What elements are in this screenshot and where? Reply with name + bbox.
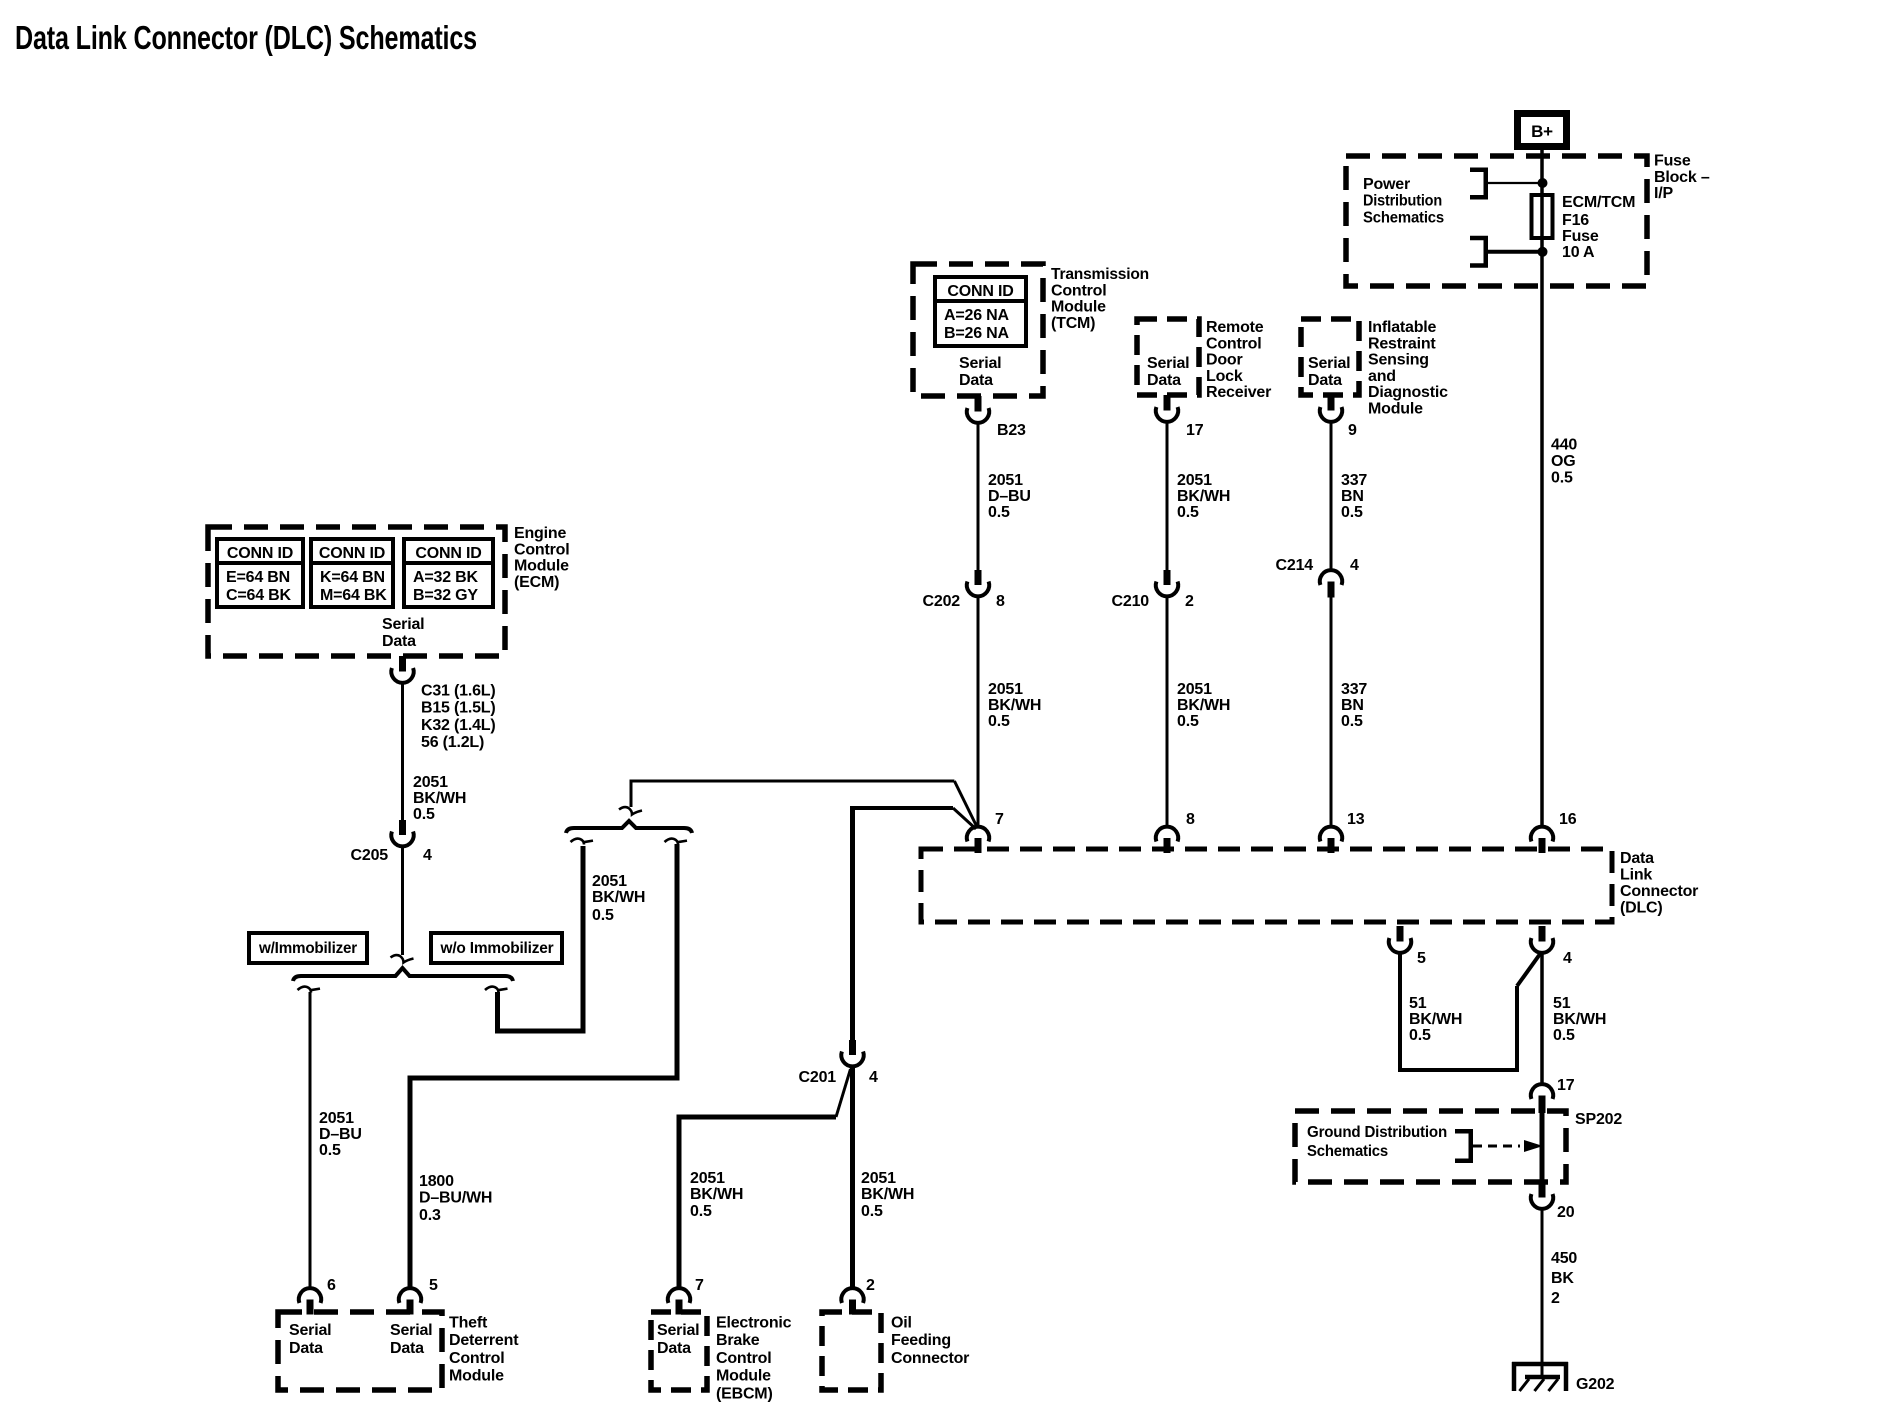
svg-text:2051: 2051 xyxy=(1177,681,1212,698)
svg-text:13: 13 xyxy=(1347,811,1365,828)
svg-text:B15 (1.5L): B15 (1.5L) xyxy=(421,700,495,717)
svg-text:Restraint: Restraint xyxy=(1368,335,1436,352)
svg-text:4: 4 xyxy=(423,847,432,864)
wire C214 to DLC pin 13 xyxy=(1330,598,1333,828)
wire horizontal to DLC pin 7 xyxy=(630,780,955,783)
svg-text:BK/WH: BK/WH xyxy=(988,697,1041,714)
svg-text:2051: 2051 xyxy=(1177,472,1212,489)
wire end curl at split xyxy=(391,955,414,962)
svg-text:C205: C205 xyxy=(351,847,389,864)
svg-text:OG: OG xyxy=(1551,453,1576,470)
svg-text:2051: 2051 xyxy=(861,1170,896,1187)
svg-text:w/o Immobilizer: w/o Immobilizer xyxy=(440,940,554,957)
wire w/immobilizer branch to theft pin 6 xyxy=(309,992,312,1287)
IRSDM dashed box xyxy=(1301,319,1359,395)
svg-text:2: 2 xyxy=(866,1277,875,1294)
svg-text:K=64 BN: K=64 BN xyxy=(320,569,385,586)
dashed link to wire xyxy=(1473,1145,1520,1148)
svg-text:2051: 2051 xyxy=(319,1110,354,1127)
svg-text:SP202: SP202 xyxy=(1575,1111,1622,1128)
EBCM dashed box xyxy=(651,1312,707,1390)
wire DLC pin 5 ground loop xyxy=(1400,953,1517,1070)
svg-text:8: 8 xyxy=(996,593,1005,610)
svg-text:BK/WH: BK/WH xyxy=(1409,1011,1462,1028)
svg-text:2051: 2051 xyxy=(592,873,627,890)
svg-text:17: 17 xyxy=(1186,422,1204,439)
ECM CONN ID table 1 xyxy=(217,539,303,607)
connector pin 9 (IRSDM) xyxy=(1328,395,1335,411)
TCM CONN ID table xyxy=(935,277,1026,346)
svg-text:Module: Module xyxy=(1051,299,1106,316)
svg-text:Ground Distribution: Ground Distribution xyxy=(1307,1124,1447,1141)
connector DLC pin 7 xyxy=(967,827,989,842)
svg-text:4: 4 xyxy=(1563,950,1572,967)
svg-text:Data: Data xyxy=(289,1340,323,1357)
junction node upper xyxy=(1538,178,1548,188)
connector C201 pin 4 xyxy=(849,1040,856,1055)
svg-text:(ECM): (ECM) xyxy=(514,574,559,591)
wire SP202 to ground G202 xyxy=(1541,1209,1544,1377)
connector DLC pin 4 xyxy=(1539,926,1546,942)
svg-text:0.5: 0.5 xyxy=(1409,1027,1431,1044)
svg-text:Distribution: Distribution xyxy=(1363,193,1442,210)
svg-text:0.5: 0.5 xyxy=(690,1203,712,1220)
svg-text:B=32 GY: B=32 GY xyxy=(413,587,478,604)
svg-text:Serial: Serial xyxy=(1147,355,1189,372)
svg-text:Deterrent: Deterrent xyxy=(449,1332,519,1349)
svg-text:5: 5 xyxy=(1417,950,1426,967)
svg-text:5: 5 xyxy=(429,1277,438,1294)
svg-text:Module: Module xyxy=(514,558,569,575)
wire C201 to oil feeding pin 2 xyxy=(850,1067,855,1287)
wire DLC pin 4 to splice 17 xyxy=(1540,953,1544,1084)
svg-text:0.5: 0.5 xyxy=(988,713,1010,730)
svg-text:I/P: I/P xyxy=(1654,185,1673,202)
svg-text:4: 4 xyxy=(869,1069,878,1086)
wire IRSDM to C214 xyxy=(1330,422,1333,570)
cross-ref bracket upper (power distribution) xyxy=(1470,170,1486,198)
svg-text:Oil: Oil xyxy=(891,1315,912,1332)
callout box w/o Immobilizer xyxy=(431,933,562,963)
connector splice 17 into SP202 xyxy=(1531,1084,1553,1099)
svg-text:BN: BN xyxy=(1341,697,1364,714)
svg-text:BK/WH: BK/WH xyxy=(861,1186,914,1203)
connector C205 pin 4 xyxy=(399,820,406,835)
svg-text:C202: C202 xyxy=(923,593,961,610)
svg-text:0.3: 0.3 xyxy=(419,1207,441,1224)
svg-text:B=26 NA: B=26 NA xyxy=(944,325,1009,342)
ECM CONN ID table 2 xyxy=(311,539,393,607)
svg-text:1800: 1800 xyxy=(419,1173,454,1190)
svg-text:Serial: Serial xyxy=(382,616,424,633)
svg-text:Receiver: Receiver xyxy=(1206,384,1271,401)
brace serial data merge xyxy=(566,821,692,833)
wire across to theft pin 5 drop xyxy=(410,1076,680,1081)
svg-text:BK/WH: BK/WH xyxy=(1177,488,1230,505)
svg-text:6: 6 xyxy=(327,1277,336,1294)
connector theft pin 5 xyxy=(399,1288,421,1303)
svg-text:C31 (1.6L): C31 (1.6L) xyxy=(421,683,495,700)
fuse block I/P dashed box xyxy=(1346,156,1647,286)
fuse ECM/TCM F16 10A xyxy=(1532,195,1553,238)
svg-text:450: 450 xyxy=(1551,1250,1577,1267)
connector DLC pin 13 xyxy=(1320,827,1342,842)
svg-text:Control: Control xyxy=(716,1350,771,1367)
svg-text:A=32 BK: A=32 BK xyxy=(413,569,478,586)
SP202 dashed box xyxy=(1295,1111,1566,1182)
svg-text:17: 17 xyxy=(1557,1077,1575,1094)
curl at merge stub end xyxy=(619,807,642,814)
svg-text:2051: 2051 xyxy=(988,681,1023,698)
svg-text:Lock: Lock xyxy=(1206,368,1243,385)
svg-text:C=64 BK: C=64 BK xyxy=(226,587,291,604)
wire bracket lower to node xyxy=(1488,250,1540,254)
svg-text:BN: BN xyxy=(1341,488,1364,505)
svg-text:BK/WH: BK/WH xyxy=(413,790,466,807)
battery B+ symbol xyxy=(1518,114,1567,147)
svg-text:Fuse: Fuse xyxy=(1654,153,1691,170)
wire diagonal C201 to EBCM branch xyxy=(836,1069,851,1117)
svg-text:K32 (1.4L): K32 (1.4L) xyxy=(421,717,495,734)
svg-text:Serial: Serial xyxy=(289,1322,331,1339)
wire diagonal into DLC pin 7 (lower) xyxy=(953,808,976,829)
svg-text:Serial: Serial xyxy=(1308,355,1350,372)
svg-text:Data: Data xyxy=(382,633,416,650)
wire horizontal to EBCM drop xyxy=(679,1115,836,1120)
svg-text:0.5: 0.5 xyxy=(1177,713,1199,730)
svg-text:Data Link Connector (DLC) Sche: Data Link Connector (DLC) Schematics xyxy=(15,19,477,56)
hook right merge branch xyxy=(665,839,688,845)
svg-text:2051: 2051 xyxy=(413,774,448,791)
svg-text:BK/WH: BK/WH xyxy=(592,889,645,906)
svg-text:Data: Data xyxy=(1620,850,1654,867)
svg-text:337: 337 xyxy=(1341,472,1367,489)
svg-text:Data: Data xyxy=(1147,372,1181,389)
svg-text:Serial: Serial xyxy=(657,1322,699,1339)
svg-text:Inflatable: Inflatable xyxy=(1368,319,1437,336)
svg-text:337: 337 xyxy=(1341,681,1367,698)
svg-text:CONN ID: CONN ID xyxy=(415,545,481,562)
svg-text:CONN ID: CONN ID xyxy=(319,545,385,562)
svg-text:F16: F16 xyxy=(1562,212,1589,229)
connector pin 20 (SP202 exit) xyxy=(1539,1182,1546,1198)
RCDLR dashed box xyxy=(1137,319,1199,395)
svg-text:16: 16 xyxy=(1559,811,1577,828)
svg-text:CONN ID: CONN ID xyxy=(947,283,1013,300)
svg-text:20: 20 xyxy=(1557,1204,1575,1221)
svg-text:0.5: 0.5 xyxy=(592,907,614,924)
ground G202 symbol xyxy=(1512,1362,1568,1367)
svg-text:C210: C210 xyxy=(1112,593,1150,610)
connector C214 pin 4 xyxy=(1320,570,1342,585)
wire C201 feed down xyxy=(850,806,855,1040)
svg-text:(EBCM): (EBCM) xyxy=(716,1385,773,1402)
svg-text:CONN ID: CONN ID xyxy=(227,545,293,562)
svg-text:Connector: Connector xyxy=(1620,883,1698,900)
svg-text:0.5: 0.5 xyxy=(988,504,1010,521)
svg-text:Connector: Connector xyxy=(891,1350,969,1367)
cross-ref bracket (ground distribution) xyxy=(1455,1131,1471,1161)
svg-text:C214: C214 xyxy=(1276,557,1314,574)
wire diagonal pin 4 to loop xyxy=(1517,954,1540,986)
DLC dashed box xyxy=(921,849,1612,922)
svg-text:and: and xyxy=(1368,368,1396,385)
svg-text:Link: Link xyxy=(1620,867,1652,884)
ECM CONN ID table 3 xyxy=(404,539,493,607)
svg-text:Data: Data xyxy=(390,1340,424,1357)
svg-text:Feeding: Feeding xyxy=(891,1332,951,1349)
svg-text:Remote: Remote xyxy=(1206,319,1264,336)
theft deterrent dashed box xyxy=(278,1312,442,1390)
svg-text:0.5: 0.5 xyxy=(1551,469,1573,486)
wire RCDLR to C210 xyxy=(1166,422,1169,570)
connector ECM serial data pin xyxy=(399,656,406,672)
wire horizontal lower to DLC pin 7 xyxy=(853,806,954,810)
svg-text:M=64 BK: M=64 BK xyxy=(320,587,387,604)
svg-text:w/Immobilizer: w/Immobilizer xyxy=(258,940,357,957)
svg-text:G202: G202 xyxy=(1576,1376,1615,1393)
svg-text:Module: Module xyxy=(716,1368,771,1385)
wire through SP202 xyxy=(1540,1113,1545,1184)
svg-text:Control: Control xyxy=(514,541,569,558)
svg-text:Control: Control xyxy=(1051,282,1106,299)
svg-text:BK/WH: BK/WH xyxy=(1177,697,1230,714)
svg-text:BK/WH: BK/WH xyxy=(1553,1011,1606,1028)
hook w/o immobilizer branch xyxy=(485,987,508,993)
svg-text:Transmission: Transmission xyxy=(1051,266,1149,283)
svg-text:(TCM): (TCM) xyxy=(1051,315,1095,332)
connector C202 pin 8 xyxy=(975,570,982,585)
connector DLC pin 5 xyxy=(1397,926,1404,942)
connector pin B23 (TCM) xyxy=(975,396,982,412)
cross-ref bracket lower (power distribution) xyxy=(1470,238,1486,265)
svg-text:Brake: Brake xyxy=(716,1332,760,1349)
connector pin 17 (RCDLR) xyxy=(1164,395,1171,411)
arrowhead onto wire xyxy=(1524,1140,1543,1152)
svg-text:Fuse: Fuse xyxy=(1562,228,1599,245)
wire merge brace right arm down xyxy=(675,844,680,1078)
svg-text:Schematics: Schematics xyxy=(1363,209,1444,226)
svg-text:51: 51 xyxy=(1409,995,1427,1012)
svg-text:Serial: Serial xyxy=(390,1322,432,1339)
connector C210 pin 2 xyxy=(1164,570,1171,585)
svg-text:0.5: 0.5 xyxy=(413,806,435,823)
svg-text:0.5: 0.5 xyxy=(1341,504,1363,521)
svg-text:D–BU: D–BU xyxy=(319,1126,362,1143)
svg-text:(DLC): (DLC) xyxy=(1620,900,1663,917)
svg-text:Sensing: Sensing xyxy=(1368,352,1429,369)
wire ECM to C205 xyxy=(401,683,404,820)
connector DLC pin 16 xyxy=(1531,827,1553,842)
wire down to theft pin 5 xyxy=(408,1076,413,1288)
svg-text:8: 8 xyxy=(1186,811,1195,828)
svg-text:Engine: Engine xyxy=(514,525,566,542)
svg-text:4: 4 xyxy=(1350,557,1359,574)
svg-text:0.5: 0.5 xyxy=(861,1203,883,1220)
svg-text:7: 7 xyxy=(695,1277,704,1294)
svg-text:B23: B23 xyxy=(997,422,1026,439)
svg-text:Module: Module xyxy=(449,1368,504,1385)
hook w/immobilizer branch xyxy=(298,987,321,993)
wire w/o immobilizer U-loop xyxy=(498,846,584,1031)
wire down to EBCM pin 7 xyxy=(677,1115,682,1288)
svg-text:Control: Control xyxy=(1206,335,1261,352)
svg-text:D–BU/WH: D–BU/WH xyxy=(419,1190,492,1207)
connector EBCM pin 7 xyxy=(668,1288,690,1303)
svg-text:Diagnostic: Diagnostic xyxy=(1368,384,1448,401)
svg-text:Data: Data xyxy=(1308,372,1342,389)
wire stub above merge brace xyxy=(630,781,633,807)
svg-text:51: 51 xyxy=(1553,995,1571,1012)
callout box w/Immobilizer xyxy=(249,933,367,963)
wire C205 down to immobilizer split xyxy=(401,847,404,955)
svg-text:B+: B+ xyxy=(1531,122,1553,141)
connector oil feeding pin 2 xyxy=(841,1288,863,1303)
svg-text:9: 9 xyxy=(1348,422,1357,439)
svg-text:440: 440 xyxy=(1551,437,1577,454)
svg-text:2051: 2051 xyxy=(690,1170,725,1187)
wire C202 to DLC pin 7 xyxy=(977,597,980,827)
svg-text:Door: Door xyxy=(1206,352,1243,369)
svg-text:Schematics: Schematics xyxy=(1307,1143,1388,1160)
svg-text:0.5: 0.5 xyxy=(1177,504,1199,521)
svg-text:Power: Power xyxy=(1363,176,1410,193)
svg-text:C201: C201 xyxy=(799,1069,837,1086)
svg-text:Serial: Serial xyxy=(959,355,1001,372)
svg-text:0.5: 0.5 xyxy=(1553,1027,1575,1044)
wire B+ to DLC pin 16 xyxy=(1540,150,1544,827)
oil feeding connector dashed box xyxy=(822,1312,881,1390)
svg-text:56 (1.2L): 56 (1.2L) xyxy=(421,734,484,751)
svg-text:0.5: 0.5 xyxy=(1341,713,1363,730)
svg-text:2051: 2051 xyxy=(988,472,1023,489)
connector theft pin 6 xyxy=(299,1288,321,1303)
svg-text:Electronic: Electronic xyxy=(716,1315,792,1332)
ECM dashed box xyxy=(208,527,505,656)
svg-text:D–BU: D–BU xyxy=(988,488,1031,505)
wire TCM B23 to C202 xyxy=(977,423,980,570)
svg-text:Control: Control xyxy=(449,1350,504,1367)
wire diagonal into DLC pin 7 (upper) xyxy=(954,781,977,827)
svg-text:A=26 NA: A=26 NA xyxy=(944,307,1009,324)
svg-text:Block –: Block – xyxy=(1654,169,1710,186)
svg-text:7: 7 xyxy=(995,811,1004,828)
hook top of w/o loop xyxy=(571,839,594,845)
svg-text:Data: Data xyxy=(657,1340,691,1357)
svg-text:ECM/TCM: ECM/TCM xyxy=(1562,194,1635,211)
wire bracket upper to node xyxy=(1488,182,1540,184)
TCM dashed box xyxy=(913,264,1043,396)
svg-text:10 A: 10 A xyxy=(1562,244,1595,261)
junction node lower xyxy=(1538,247,1548,257)
svg-text:2: 2 xyxy=(1551,1290,1560,1307)
svg-text:2: 2 xyxy=(1185,593,1194,610)
svg-text:Data: Data xyxy=(959,372,993,389)
wire C210 to DLC pin 8 xyxy=(1166,597,1169,827)
connector DLC pin 8 xyxy=(1156,827,1178,842)
brace split below immobilizer callouts xyxy=(293,968,513,981)
svg-text:BK: BK xyxy=(1551,1270,1574,1287)
svg-text:0.5: 0.5 xyxy=(319,1142,341,1159)
svg-text:BK/WH: BK/WH xyxy=(690,1186,743,1203)
svg-text:E=64 BN: E=64 BN xyxy=(226,569,290,586)
svg-text:Module: Module xyxy=(1368,401,1423,418)
svg-text:Theft: Theft xyxy=(449,1315,488,1332)
